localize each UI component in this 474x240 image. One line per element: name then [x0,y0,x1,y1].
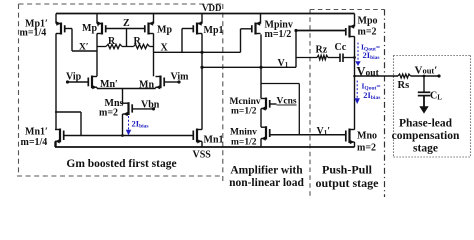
svg-text:Vip: Vip [66,72,82,83]
svg-text:m=2: m=2 [358,27,377,38]
svg-text:R: R [134,36,142,47]
svg-text:Mn1′: Mn1′ [25,127,48,138]
svg-text:Mn1: Mn1 [204,135,224,146]
svg-text:Phase-lead: Phase-lead [399,118,453,130]
svg-text:output stage: output stage [315,176,379,190]
svg-text:Mn′: Mn′ [100,79,118,90]
svg-text:Cc: Cc [335,42,347,53]
svg-text:Vim: Vim [171,72,190,83]
svg-text:CL: CL [430,91,442,102]
svg-text:Vcns: Vcns [277,97,297,107]
svg-text:Vout: Vout [357,65,380,79]
svg-text:Amplifier with: Amplifier with [230,165,303,177]
svg-text:Gm boosted first stage: Gm boosted first stage [66,158,176,170]
svg-text:VSS: VSS [193,150,212,161]
svg-text:Mninv: Mninv [230,128,257,138]
svg-text:V1: V1 [278,58,289,69]
svg-text:Vout′: Vout′ [415,65,438,77]
svg-text:m=1/2: m=1/2 [265,29,292,40]
svg-text:m=2: m=2 [99,108,118,119]
svg-text:compensation: compensation [392,130,460,142]
svg-text:m=2: m=2 [357,143,376,154]
svg-text:2Ibias: 2Ibias [132,119,149,130]
svg-text:Vbn: Vbn [141,100,160,111]
svg-text:Push-Pull: Push-Pull [322,163,373,177]
svg-text:2Ibias: 2Ibias [363,90,380,101]
svg-text:Mno: Mno [357,131,377,142]
svg-text:m=1/4: m=1/4 [21,137,48,148]
svg-text:Mp1: Mp1 [204,25,224,36]
svg-text:X′: X′ [79,43,89,53]
svg-text:R: R [108,36,116,47]
svg-text:m=1/2: m=1/2 [231,107,257,117]
svg-text:non-linear load: non-linear load [229,177,304,189]
svg-text:Rs: Rs [398,80,410,91]
svg-text:Mn: Mn [139,80,154,91]
svg-text:X: X [161,43,169,54]
svg-text:Z: Z [123,18,130,29]
svg-text:Mpo: Mpo [358,16,378,27]
svg-text:V1′: V1′ [317,126,331,137]
svg-text:stage: stage [413,143,438,155]
svg-text:VDD: VDD [202,3,222,13]
svg-text:Rz: Rz [316,45,328,56]
svg-text:Mp: Mp [157,25,172,36]
svg-text:m=1/4: m=1/4 [20,28,47,39]
svg-text:Mp′: Mp′ [82,23,100,34]
svg-text:Mcninv: Mcninv [230,97,261,107]
svg-text:m=1/2: m=1/2 [231,138,257,148]
